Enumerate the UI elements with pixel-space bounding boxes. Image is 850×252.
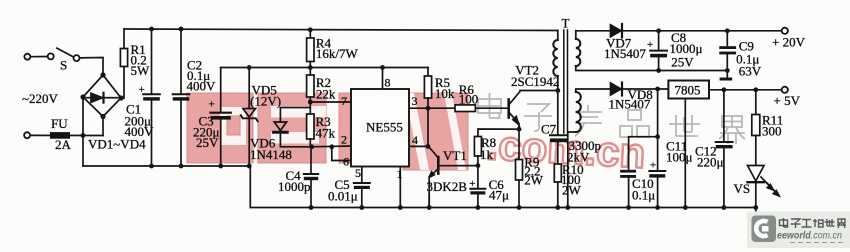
svg-text:3DK2B: 3DK2B bbox=[427, 179, 468, 194]
svg-text:+: + bbox=[650, 160, 656, 172]
svg-text:+ 5V: + 5V bbox=[774, 93, 801, 108]
svg-text:1N5407: 1N5407 bbox=[609, 97, 651, 112]
svg-text:1N4148: 1N4148 bbox=[250, 147, 292, 162]
svg-text:1000p: 1000p bbox=[278, 179, 311, 194]
svg-text:2: 2 bbox=[341, 133, 347, 147]
svg-text:1: 1 bbox=[397, 167, 403, 181]
svg-text:S: S bbox=[60, 58, 67, 73]
svg-text:2A: 2A bbox=[55, 137, 72, 152]
svg-text:4: 4 bbox=[412, 133, 418, 147]
svg-text:C7: C7 bbox=[541, 122, 557, 137]
svg-text:NE555: NE555 bbox=[366, 120, 403, 135]
svg-text:220μ: 220μ bbox=[697, 155, 724, 170]
svg-text:47k: 47k bbox=[316, 126, 336, 141]
svg-text:0.01μ: 0.01μ bbox=[328, 189, 358, 204]
svg-text:47μ: 47μ bbox=[489, 188, 509, 203]
svg-text:2SC1942: 2SC1942 bbox=[511, 74, 559, 89]
svg-text:22k: 22k bbox=[316, 87, 336, 102]
svg-text:8: 8 bbox=[385, 76, 391, 90]
svg-text:63V: 63V bbox=[739, 64, 762, 79]
svg-text:5W: 5W bbox=[131, 63, 151, 78]
svg-text:400V: 400V bbox=[187, 79, 217, 94]
svg-text:7: 7 bbox=[341, 94, 347, 108]
svg-text:100μ: 100μ bbox=[666, 150, 693, 165]
svg-text:+: + bbox=[209, 99, 215, 111]
svg-text:+: + bbox=[469, 178, 475, 190]
svg-text:100: 100 bbox=[459, 92, 479, 107]
svg-text:+: + bbox=[647, 39, 653, 51]
svg-text:300: 300 bbox=[762, 124, 782, 139]
svg-text:5: 5 bbox=[355, 166, 361, 180]
svg-text:+: + bbox=[139, 84, 145, 96]
svg-text:400V: 400V bbox=[125, 124, 155, 139]
svg-text:1k: 1k bbox=[480, 147, 494, 162]
svg-text:25V: 25V bbox=[196, 135, 219, 150]
svg-text:7805: 7805 bbox=[675, 83, 701, 98]
svg-text:VS: VS bbox=[734, 181, 751, 196]
svg-text:1N5407: 1N5407 bbox=[604, 46, 646, 61]
svg-text:0.1μ: 0.1μ bbox=[632, 188, 655, 203]
svg-text:FU: FU bbox=[51, 116, 68, 131]
svg-text:10k: 10k bbox=[435, 86, 455, 101]
svg-text:25V: 25V bbox=[671, 55, 694, 70]
svg-text:3: 3 bbox=[412, 94, 418, 108]
svg-text:16k/7W: 16k/7W bbox=[316, 46, 359, 61]
svg-text:+ 20V: + 20V bbox=[772, 35, 806, 50]
svg-text:~220V: ~220V bbox=[22, 91, 59, 106]
svg-text:T: T bbox=[562, 16, 570, 31]
svg-text:VT1: VT1 bbox=[443, 148, 467, 163]
svg-text:2W: 2W bbox=[524, 173, 544, 188]
svg-text:6: 6 bbox=[343, 155, 349, 169]
svg-text:2W: 2W bbox=[562, 183, 582, 198]
svg-text:(12V): (12V) bbox=[250, 94, 281, 109]
svg-text:eeworld.com.cn: eeworld.com.cn bbox=[777, 230, 842, 242]
